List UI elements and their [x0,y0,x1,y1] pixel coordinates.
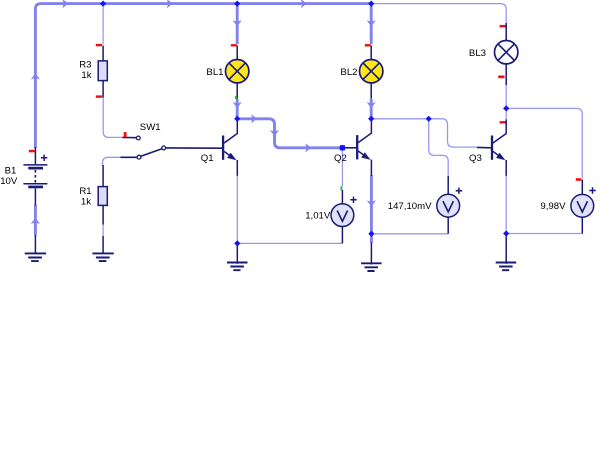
transistor Q3 collector lead [493,120,506,144]
wire: BL2 bottom to junction (thick) [370,99,373,119]
resistor R3 red tick bottom [96,95,102,97]
resistor R3 red tick top [96,44,102,46]
voltmeter V1 green tick [340,186,342,190]
lamp BL1 leads [236,46,238,99]
wire: battery bottom to ground (thick) [34,205,37,236]
svg-text:BL2: BL2 [340,67,357,78]
switch SW1 common contact [162,146,166,150]
wire: Q2 emitter to ground junction (thick) [370,175,373,243]
junction: top rail / BL1 [234,1,240,7]
transistor Q3 base lead [477,146,491,148]
svg-text:BL1: BL1 [206,67,223,78]
junction: BL2 bottom node [368,116,374,122]
wire: Q3 ground junction to voltmeter V3 bottom [506,231,582,234]
lamp BL1 green tick [235,96,237,99]
svg-text:B1: B1 [5,165,17,176]
current arrow: battery bottom up [31,218,40,224]
lamp BL3 leads [505,23,507,85]
wire: R1 top to switch bottom contact [103,157,122,165]
current arrow: top rail right 3 [301,0,307,8]
battery B1 top lead [34,147,36,165]
switch SW1 red tick [124,132,127,137]
voltmeter V1 bottom lead [341,227,343,244]
voltmeter V2 plus sign [456,188,462,194]
voltmeter V3 red tick [576,178,582,181]
svg-text:1k: 1k [81,197,91,208]
current arrow: BL1 bottom down [233,102,242,108]
wire: top rail thin segment to BL3 [371,4,506,24]
resistor R1 body [98,187,107,206]
wire: R1 bottom to ground [102,224,104,236]
switch SW1 lever [141,149,162,157]
voltmeter V1 plus sign [350,197,356,203]
junction: top rail / R3 [100,1,106,7]
current arrow: base feed horizontal 2 [305,143,311,152]
current arrow: BL2 top down [367,20,376,26]
voltmeter V1 top lead [341,190,343,204]
resistor R3 body [98,61,107,81]
junction: Q3 emitter ground node [503,230,509,236]
wire: BL1 top drop (thick) [236,4,239,44]
svg-text:1k: 1k [81,70,91,81]
wire: Q1 emitter down to ground junction [236,175,238,243]
wire: switch common to Q1 base [166,147,223,149]
wire: mid junction down to voltmeter V2 top [429,119,449,177]
transistor Q2 base lead [345,147,357,149]
switch SW1 top contact [136,136,140,140]
transistor Q3 base bar [491,136,493,160]
battery B1 cells [23,164,47,166]
wire: BL3 junction to voltmeter V3 top [506,108,582,178]
current arrow: BL1 top down [233,20,242,26]
junction: Q1 emitter ground node [234,240,240,246]
svg-text:147,10mV: 147,10mV [388,201,432,212]
wire: R3 bottom to switch top contact [103,98,123,137]
svg-text:BL3: BL3 [469,48,486,59]
wire: Q2 base node down to voltmeter V1 top [341,151,343,187]
lamp BL2 (lit) [360,59,383,82]
svg-text:1,01V: 1,01V [305,211,331,222]
lamp BL3 red tick top [500,25,506,28]
junction: BL3 bottom node [503,105,509,111]
lamp BL2 red tick [365,44,371,46]
svg-text:10V: 10V [0,176,18,187]
svg-text:9,98V: 9,98V [540,201,566,212]
battery B1 red voltage tick [29,150,35,153]
junction: Q2 base node (square) [340,145,345,150]
wire: BL1 bottom to junction (thick) [236,99,239,119]
ground G2 (R1) [102,236,104,254]
current arrow: top rail right 1 [62,0,68,8]
battery B1 plus sign [41,155,47,161]
wire: Q2 emitter junction to voltmeter V2 bottom [371,233,448,235]
lamp BL3 (off) [495,41,518,64]
switch SW1 bottom contact [137,155,141,159]
wire: left rail + top rail (thick, current-carrying) [35,4,371,148]
transistor Q2 collector lead [358,121,371,143]
current arrow: left rail up [31,73,40,79]
ground G3 (Q1 emitter) [236,245,238,264]
wire: Q3 emitter down to ground junction [505,175,507,234]
lamp BL1 (lit) [226,59,249,82]
voltmeter V3 plus sign [589,187,595,193]
svg-text:R1: R1 [79,186,91,197]
ground G5 (Q3 emitter) [505,235,507,264]
switch SW1 lead from R3 [123,136,137,138]
battery B1 bottom lead [34,189,36,206]
voltmeter V3 top lead [581,180,583,195]
svg-text:SW1: SW1 [140,122,161,133]
voltmeter V3 body [571,194,594,217]
transistor Q2 base bar [356,135,358,159]
ground G4 (Q2 emitter) [370,243,372,265]
current arrow: top rail right 2 [167,0,173,8]
resistor R1 leads [102,165,104,225]
current arrow: base feed vertical down [270,130,279,136]
transistor Q3 red tick (collector) [500,121,506,123]
junction: Q2 emitter ground node [368,231,374,237]
voltmeter V2 bottom lead [447,218,449,234]
resistor R3 leads [102,46,104,98]
lamp BL2 leads [370,46,372,99]
wire: mid junction to Q3 base [429,119,478,147]
current arrow: BL2 bottom down [367,102,376,108]
junction: BL1 bottom node [234,116,240,122]
voltmeter V2 top lead [447,176,449,194]
transistor Q1 base bar [222,136,224,160]
current arrow: Q2 emitter down [367,200,376,206]
wire: R3 top drop [102,5,104,45]
wire: BL2 junction to mid junction [371,118,429,120]
svg-text:R3: R3 [79,59,91,70]
wire: BL3 bottom lead to collector junction [505,84,507,120]
junction: top rail / BL2 [368,1,374,7]
transistor Q1 collector lead [224,121,237,144]
transistor Q2 emitter [358,151,367,158]
svg-text:Q2: Q2 [334,153,347,164]
wire: ground junction to voltmeter V1 bottom [237,242,342,244]
transistor Q3 emitter [493,151,502,158]
current arrow: base feed horizontal 1 [251,114,257,123]
lamp BL1 red tick [231,44,237,46]
ground G1 (battery) [34,235,36,254]
voltmeter V3 bottom lead [581,218,583,234]
voltmeter V1 body [331,204,354,227]
wire: BL1 junction to Q2 base (thick) [237,119,342,148]
lamp BL3 red tick bottom [498,76,504,79]
junction: mid node to Q3 base/V2 [426,116,432,122]
transistor Q1 emitter [224,151,233,158]
svg-text:Q1: Q1 [201,153,214,164]
switch SW1 lead from R1 [121,156,138,158]
voltmeter V2 body [437,194,460,217]
svg-text:Q3: Q3 [469,153,482,164]
wire: BL2 top drop (thick) [370,4,373,44]
